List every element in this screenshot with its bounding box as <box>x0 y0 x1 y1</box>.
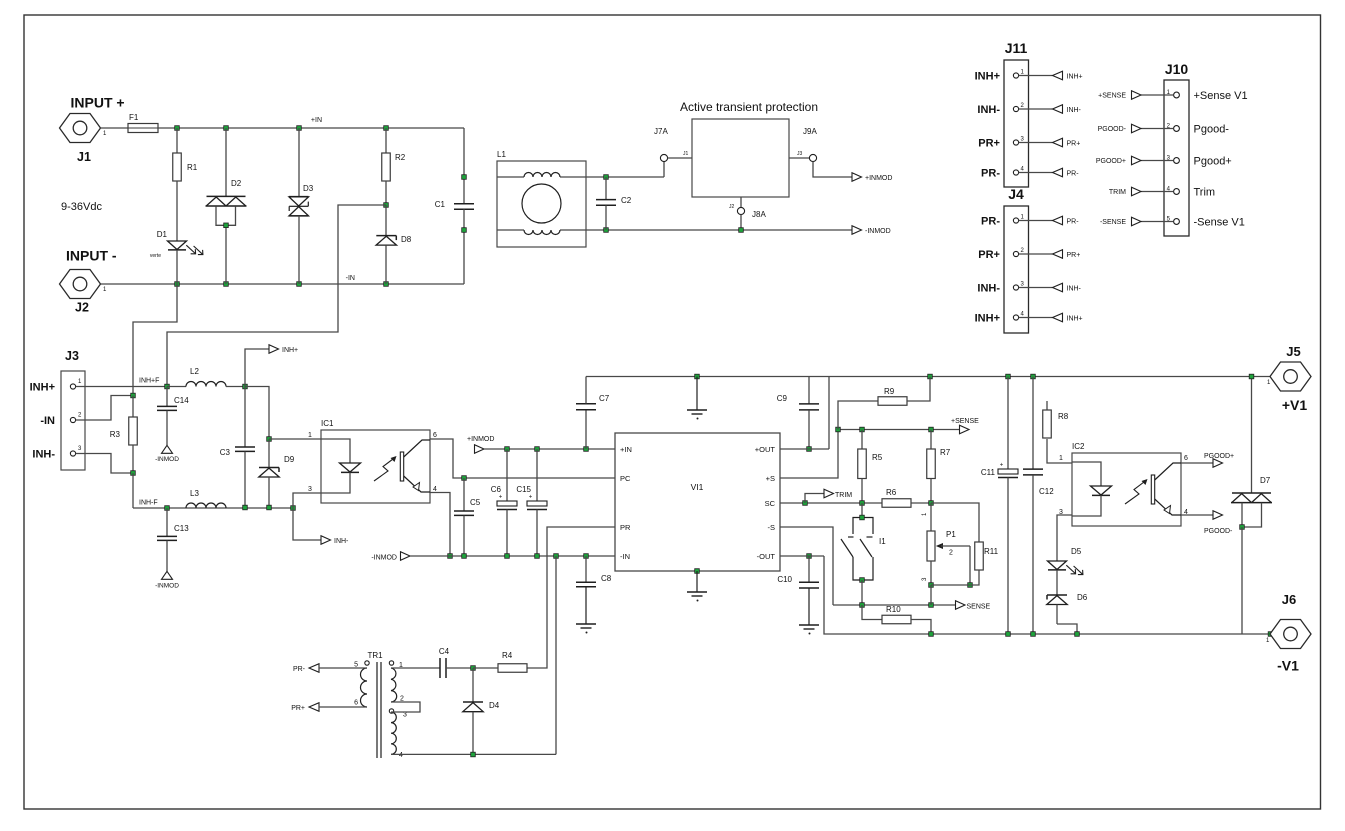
node D7 bottom <box>1240 525 1245 634</box>
node C9 bottom <box>807 447 812 452</box>
svg-text:R8: R8 <box>1058 412 1069 421</box>
J3 pin 2 <box>70 396 133 423</box>
label INPUT - <box>66 248 117 264</box>
svg-text:J5: J5 <box>1286 344 1300 359</box>
svg-text:J1: J1 <box>77 150 91 164</box>
svg-text:6: 6 <box>433 432 437 439</box>
svg-text:INH-: INH- <box>32 449 55 461</box>
svg-text:1: 1 <box>1266 638 1270 644</box>
wire IC2 pin3 to D5 <box>1057 515 1072 561</box>
node TR1 rail <box>554 554 559 559</box>
svg-text:C4: C4 <box>439 647 450 656</box>
wire TR1 pin1 to C4 <box>391 667 440 669</box>
node +IN/R1 <box>175 126 180 131</box>
svg-text:J6: J6 <box>1282 592 1296 607</box>
resistor R4 <box>473 651 527 672</box>
inductor L2 <box>167 367 245 387</box>
svg-text:PR+: PR+ <box>1067 141 1081 148</box>
node L2 right <box>243 384 248 389</box>
svg-text:1: 1 <box>922 512 928 516</box>
svg-text:C7: C7 <box>599 394 610 403</box>
zener D8 <box>376 205 412 284</box>
svg-text:J1: J1 <box>683 151 689 157</box>
node R7 top <box>929 427 934 432</box>
svg-text:R3: R3 <box>110 430 121 439</box>
svg-text:C3: C3 <box>220 448 231 457</box>
svg-text:C15: C15 <box>516 485 531 494</box>
resistor R8 <box>1043 401 1072 463</box>
svg-text:P1: P1 <box>946 530 956 539</box>
wire D6 to rail <box>1057 624 1077 634</box>
node +IN/D2 <box>224 126 229 131</box>
svg-text:R5: R5 <box>872 453 883 462</box>
svg-text:IC2: IC2 <box>1072 442 1085 451</box>
label 9-36Vdc <box>61 201 102 213</box>
svg-text:INH+: INH+ <box>30 382 55 394</box>
wire +INMOD row <box>484 448 615 450</box>
node C4/D4 <box>471 666 476 671</box>
wire L1 top to J7A <box>586 176 664 178</box>
svg-text:J3: J3 <box>65 349 79 363</box>
svg-text:J2: J2 <box>75 301 89 315</box>
node +IN/D3 <box>297 126 302 131</box>
active transient protection box <box>680 100 818 197</box>
svg-text:J7A: J7A <box>654 127 668 136</box>
port SENSE out <box>956 601 991 611</box>
label J3 INH+ <box>30 382 55 394</box>
svg-text:J8A: J8A <box>752 210 766 219</box>
resistor R6 <box>882 488 931 507</box>
port +SENSE out <box>951 418 979 434</box>
svg-text:D3: D3 <box>303 184 314 193</box>
wire -OUT to bottom rail <box>780 556 1271 634</box>
node rail C12 <box>1031 374 1036 379</box>
resistor R10 <box>862 605 931 634</box>
svg-text:1: 1 <box>78 379 82 385</box>
svg-text:Active transient protection: Active transient protection <box>680 100 818 114</box>
top +V1 rail <box>586 376 1271 378</box>
diode D4 <box>463 668 500 755</box>
svg-text:INH-: INH- <box>977 283 1000 295</box>
svg-text:PR: PR <box>620 523 631 532</box>
node +IN/C15 <box>535 447 540 452</box>
ground top rail <box>687 377 707 420</box>
wire SENSE row <box>833 604 956 606</box>
svg-text:+: + <box>499 495 503 501</box>
capacitor C8 <box>576 554 612 624</box>
svg-text:PR+: PR+ <box>978 249 1000 261</box>
svg-text:INH-: INH- <box>1067 286 1082 293</box>
svg-text:C12: C12 <box>1039 487 1054 496</box>
node C11 rail <box>1006 632 1011 637</box>
node INH+F/C14 <box>165 384 170 389</box>
svg-text:1: 1 <box>308 432 312 439</box>
connector J3 box <box>61 349 85 470</box>
port -INMOD under C13 <box>155 571 179 589</box>
node +IN/C7 <box>584 447 589 452</box>
wire IC1 pin6 to PC row <box>430 439 615 478</box>
wire SC row <box>780 502 882 504</box>
svg-text:+Sense V1: +Sense V1 <box>1194 90 1248 102</box>
svg-text:1: 1 <box>1267 380 1271 386</box>
svg-text:3: 3 <box>308 486 312 493</box>
node R5 top <box>860 427 865 432</box>
node VI1 bottom <box>695 569 700 574</box>
label INPUT + <box>71 95 125 111</box>
node C12 rail <box>1031 632 1036 637</box>
capacitor C6 <box>491 449 517 558</box>
svg-text:+SENSE: +SENSE <box>1098 93 1126 100</box>
svg-text:SC: SC <box>765 499 776 508</box>
capacitor C5 <box>454 476 481 559</box>
wire +S jog <box>780 430 838 479</box>
node J8A on -INMOD rail <box>739 228 744 233</box>
capacitor C3 <box>220 387 255 508</box>
svg-text:-IN: -IN <box>40 415 55 427</box>
svg-text:D6: D6 <box>1077 593 1088 602</box>
wire box to J9A <box>789 157 809 159</box>
svg-text:INH-: INH- <box>334 538 349 545</box>
wire +SENSE rail <box>838 429 960 431</box>
svg-text:1: 1 <box>1021 70 1025 76</box>
svg-text:3: 3 <box>1021 137 1025 143</box>
port PR+ out <box>291 703 367 712</box>
svg-text:PR+: PR+ <box>291 705 305 712</box>
svg-text:3: 3 <box>922 577 928 581</box>
svg-text:-INMOD: -INMOD <box>371 555 397 562</box>
node I1/SENSE <box>860 603 865 608</box>
wire TR1 pin2 jog <box>391 702 420 712</box>
svg-text:verte: verte <box>150 253 161 259</box>
node D4 bottom <box>471 752 476 757</box>
svg-text:INH+: INH+ <box>975 71 1000 83</box>
svg-text:-V1: -V1 <box>1277 658 1299 674</box>
svg-text:D7: D7 <box>1260 476 1271 485</box>
wire VI1 PR to R4 <box>527 527 615 668</box>
node -IN/D8 <box>384 282 389 287</box>
node +IN/C6 <box>505 447 510 452</box>
svg-text:INH+: INH+ <box>1067 316 1083 323</box>
svg-text:D4: D4 <box>489 701 500 710</box>
svg-text:3: 3 <box>78 446 82 452</box>
svg-text:TRIM: TRIM <box>835 492 852 499</box>
wire J2 to -IN rail <box>101 275 464 284</box>
svg-text:-S: -S <box>768 523 776 532</box>
svg-text:R10: R10 <box>886 605 901 614</box>
svg-text:INH+F: INH+F <box>139 378 159 385</box>
svg-text:PGOOD+: PGOOD+ <box>1204 453 1234 460</box>
svg-text:D5: D5 <box>1071 547 1082 556</box>
svg-text:+IN: +IN <box>620 445 632 454</box>
node P1 bottom <box>929 583 934 605</box>
port -INMOD out <box>852 226 891 235</box>
led D1 <box>150 230 203 284</box>
svg-text:PC: PC <box>620 474 631 483</box>
svg-text:L1: L1 <box>497 150 506 159</box>
fuse F1 <box>128 113 158 133</box>
svg-text:6: 6 <box>1184 455 1188 462</box>
svg-text:INH-F: INH-F <box>139 500 158 507</box>
svg-text:-IN: -IN <box>346 275 355 282</box>
resistor R2 <box>382 128 406 205</box>
node C1 top <box>462 175 467 180</box>
svg-text:6: 6 <box>354 700 358 707</box>
svg-text:C13: C13 <box>174 524 189 533</box>
node -IN/D1 <box>175 282 180 287</box>
optocoupler IC1 <box>308 419 437 503</box>
port TRIM out <box>805 489 852 503</box>
wire IC1 pin1 <box>269 438 321 440</box>
resistor R1 <box>173 128 198 241</box>
transil D2 <box>206 128 247 284</box>
node R10 rail <box>929 632 934 637</box>
connector J10 <box>1096 61 1248 236</box>
resistor R7 <box>927 430 951 504</box>
potentiometer P1 <box>922 503 970 585</box>
resistor R5 <box>858 430 883 504</box>
svg-text:R2: R2 <box>395 153 406 162</box>
optocoupler IC2 <box>1059 442 1188 526</box>
connector J4 <box>975 186 1083 333</box>
node rail gnd <box>695 374 700 379</box>
transil D7 <box>1231 377 1272 528</box>
svg-text:-OUT: -OUT <box>757 552 776 561</box>
wire -INMOD rail <box>586 229 852 231</box>
node INH-F end <box>291 506 296 511</box>
wire TR1 pin4 <box>391 556 556 754</box>
capacitor C14 <box>157 387 189 446</box>
node J6 rail <box>1268 632 1273 637</box>
label J3 INH- <box>32 449 55 461</box>
connector J9A <box>797 127 817 162</box>
svg-text:C6: C6 <box>491 485 502 494</box>
svg-text:-INMOD: -INMOD <box>155 583 179 590</box>
svg-text:F1: F1 <box>129 113 139 122</box>
connector J8A <box>729 197 766 230</box>
svg-text:+INMOD: +INMOD <box>865 175 892 182</box>
svg-text:D8: D8 <box>401 235 412 244</box>
resistor R11 <box>931 503 999 585</box>
connector J2 <box>60 270 108 315</box>
svg-text:-SENSE: -SENSE <box>1100 219 1126 226</box>
svg-text:R7: R7 <box>940 448 951 457</box>
diode D3 <box>289 128 314 284</box>
svg-text:J9A: J9A <box>803 127 817 136</box>
capacitor C10 <box>777 554 819 625</box>
converter VI1 <box>615 433 780 571</box>
svg-text:INH+: INH+ <box>975 313 1000 325</box>
wire IC1 pin4 to -INMOD rail <box>430 493 450 557</box>
zener D9 <box>259 439 295 508</box>
svg-text:+SENSE: +SENSE <box>951 418 979 425</box>
svg-text:1: 1 <box>1059 455 1063 462</box>
port +INMOD in <box>467 436 494 453</box>
wire INH-F row <box>133 507 293 509</box>
svg-text:+OUT: +OUT <box>755 445 776 454</box>
svg-text:PR-: PR- <box>1067 171 1080 178</box>
svg-text:1: 1 <box>1021 215 1025 221</box>
node C2 top <box>604 175 609 180</box>
svg-text:1: 1 <box>103 287 107 293</box>
node R5/SC <box>860 501 865 506</box>
port PR- out <box>293 664 367 673</box>
port PGOOD+ out <box>1181 453 1234 467</box>
svg-text:4: 4 <box>1021 167 1025 173</box>
svg-text:J4: J4 <box>1008 186 1024 202</box>
svg-text:J3: J3 <box>797 151 803 157</box>
svg-text:PR-: PR- <box>981 216 1000 228</box>
svg-text:L3: L3 <box>190 489 199 498</box>
node IC1 pin4 rail <box>448 554 453 559</box>
resistor R9 <box>838 377 930 430</box>
svg-text:J2: J2 <box>729 204 735 210</box>
svg-text:+IN: +IN <box>311 117 322 124</box>
choke L1 <box>497 150 586 247</box>
svg-text:D9: D9 <box>284 455 295 464</box>
resistor R3 <box>110 393 137 475</box>
svg-text:3: 3 <box>1021 282 1025 288</box>
node C1 bottom <box>462 228 467 233</box>
svg-text:+: + <box>1000 463 1004 469</box>
node D9 top <box>267 437 272 442</box>
svg-text:C10: C10 <box>777 575 792 584</box>
capacitor C1 <box>435 128 474 284</box>
svg-text:R9: R9 <box>884 387 895 396</box>
node R6/R7/P1 <box>929 501 934 506</box>
svg-text:D2: D2 <box>231 179 242 188</box>
svg-text:4: 4 <box>399 752 403 759</box>
transformer TR1 <box>354 651 407 759</box>
capacitor C7 <box>576 377 610 450</box>
capacitor C15 <box>516 449 547 558</box>
port +INMOD out <box>852 173 892 182</box>
svg-text:Trim: Trim <box>1194 187 1216 199</box>
svg-text:C9: C9 <box>777 394 788 403</box>
capacitor C4 <box>439 647 473 678</box>
wire J1 to F1 <box>101 127 128 129</box>
svg-text:2: 2 <box>1021 248 1025 254</box>
svg-text:PR-: PR- <box>1067 219 1080 226</box>
J3 pin 1 <box>70 379 167 389</box>
port -INMOD in <box>371 552 410 562</box>
connector J5 <box>1267 344 1311 413</box>
svg-text:+V1: +V1 <box>1282 397 1308 413</box>
connector J6 <box>1266 592 1311 674</box>
svg-text:L2: L2 <box>190 367 199 376</box>
ground below C8 <box>576 624 596 634</box>
svg-text:C5: C5 <box>470 498 481 507</box>
node D2 bottom <box>224 223 229 228</box>
wire J7A to box <box>668 157 692 159</box>
switch I1 <box>841 503 886 605</box>
svg-text:INPUT +: INPUT + <box>71 95 125 111</box>
ground below VI1 <box>687 571 707 602</box>
svg-text:D1: D1 <box>157 230 168 239</box>
svg-text:PGOOD-: PGOOD- <box>1098 126 1127 133</box>
connector J1 <box>60 114 108 165</box>
svg-text:+INMOD: +INMOD <box>467 436 494 443</box>
J3 pin 3 <box>70 446 133 473</box>
node J5 rail <box>1249 374 1254 379</box>
svg-text:-INMOD: -INMOD <box>865 228 891 235</box>
svg-text:SENSE: SENSE <box>967 604 991 611</box>
wire junction to INH+F <box>167 205 386 387</box>
node C3 bottom <box>243 505 248 510</box>
svg-text:-IN: -IN <box>620 552 630 561</box>
wire -S jog <box>780 527 833 605</box>
svg-text:4: 4 <box>1021 312 1025 318</box>
svg-text:TRIM: TRIM <box>1109 189 1126 196</box>
capacitor C12 <box>1023 377 1054 635</box>
svg-text:R4: R4 <box>502 651 513 660</box>
svg-text:IC1: IC1 <box>321 419 334 428</box>
svg-text:2: 2 <box>949 550 953 557</box>
svg-text:R11: R11 <box>984 547 999 556</box>
port INH+ out <box>245 345 298 387</box>
svg-text:C1: C1 <box>435 200 446 209</box>
connector J7A <box>654 127 689 177</box>
wire +IN rail <box>158 117 464 128</box>
svg-text:9-36Vdc: 9-36Vdc <box>61 201 102 213</box>
svg-text:PR+: PR+ <box>1067 252 1081 259</box>
svg-text:-Sense V1: -Sense V1 <box>1194 217 1245 229</box>
label J3 -IN <box>40 415 55 427</box>
inductor L3 <box>186 489 226 508</box>
svg-text:Pgood+: Pgood+ <box>1194 156 1232 168</box>
svg-text:PGOOD-: PGOOD- <box>1204 528 1233 535</box>
svg-text:INH+: INH+ <box>1067 74 1083 81</box>
svg-text:1: 1 <box>103 131 107 137</box>
node rail R9 <box>928 374 933 379</box>
svg-text:2: 2 <box>1021 103 1025 109</box>
svg-text:C2: C2 <box>621 196 632 205</box>
net label INH-F <box>139 500 158 507</box>
ground below C10 <box>799 625 819 635</box>
svg-text:VI1: VI1 <box>691 482 704 492</box>
wire -INMOD row <box>410 555 615 557</box>
node C2 bottom <box>604 228 609 233</box>
wire to D9 top <box>245 387 269 440</box>
svg-text:C8: C8 <box>601 574 612 583</box>
svg-text:PR-: PR- <box>981 168 1000 180</box>
node R2/D8 junction <box>384 203 389 208</box>
svg-text:INH-: INH- <box>1067 107 1082 114</box>
wire J9A to +INMOD <box>813 162 852 177</box>
led D5 <box>1048 547 1083 595</box>
svg-text:+: + <box>529 495 533 501</box>
node D9 bottom <box>267 505 272 510</box>
svg-text:INPUT -: INPUT - <box>66 248 117 264</box>
port INH- out <box>293 508 349 545</box>
capacitor C9 <box>777 377 819 450</box>
node rail C11 <box>1006 374 1011 379</box>
svg-text:+S: +S <box>766 474 775 483</box>
port -INMOD under C14 <box>155 445 179 463</box>
svg-text:PR+: PR+ <box>978 138 1000 150</box>
wire +OUT row <box>780 377 829 450</box>
capacitor C2 <box>596 177 632 230</box>
port PGOOD- out <box>1181 511 1233 535</box>
svg-text:INH+: INH+ <box>282 347 298 354</box>
wire IC1 pin3 <box>293 493 321 508</box>
node P1/SENSE <box>929 603 934 608</box>
svg-text:Pgood-: Pgood- <box>1194 124 1230 136</box>
svg-text:PR-: PR- <box>293 666 306 673</box>
wire -IN to J3 area <box>133 284 177 396</box>
capacitor C11 <box>981 377 1018 635</box>
net label INH+F <box>139 378 159 385</box>
svg-text:C14: C14 <box>174 396 189 405</box>
